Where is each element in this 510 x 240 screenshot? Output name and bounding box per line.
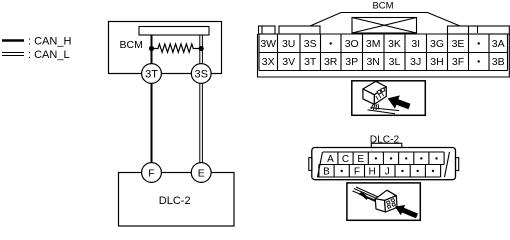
svg-text:3S: 3S xyxy=(194,69,207,81)
svg-text:3R: 3R xyxy=(324,56,338,68)
svg-text:C: C xyxy=(342,154,349,165)
DLC-2 connector left latch xyxy=(309,158,312,171)
icon frame xyxy=(347,183,420,220)
svg-text:3I: 3I xyxy=(411,38,420,50)
wire CAN_L inside BCM (3S to bar), double line xyxy=(200,35,203,64)
DLC-2 connector view icon xyxy=(347,183,420,220)
wire CAN_H inside BCM (3T to bar) xyxy=(151,35,153,64)
svg-text:3P: 3P xyxy=(345,56,358,68)
svg-text:3T: 3T xyxy=(304,56,317,68)
svg-text:3L: 3L xyxy=(389,56,401,68)
connector housing isometric xyxy=(363,81,386,104)
wire CAN_H from 3T to F xyxy=(151,83,153,163)
DLC-2 pin blank row2 col6 xyxy=(401,170,403,172)
wire bundle stub xyxy=(361,193,368,199)
DLC-2 connector right latch xyxy=(456,158,459,171)
DLC-2 pin blank row1 col4 xyxy=(375,157,377,159)
legend CAN_H line sample xyxy=(2,39,24,42)
legend CAN_L double line sample xyxy=(2,53,24,56)
DLC-2 pin blank row1 col5 xyxy=(390,157,392,159)
svg-text:3X: 3X xyxy=(262,56,275,68)
svg-text:3H: 3H xyxy=(430,56,443,68)
svg-text:3E: 3E xyxy=(452,38,465,50)
DLC-2 pin blank row1 col8 xyxy=(435,157,437,159)
svg-text:BCM: BCM xyxy=(120,39,143,51)
connector pin slots xyxy=(377,88,385,94)
svg-text:F: F xyxy=(354,166,360,177)
svg-text:3O: 3O xyxy=(345,38,359,50)
svg-text:3J: 3J xyxy=(410,56,421,68)
DLC-2 pin blank row2 col8 xyxy=(432,170,434,172)
BCM connector view icon xyxy=(352,81,426,116)
BCM connector top tab left xyxy=(259,26,276,34)
junction dot at CAN_H / resistor xyxy=(149,46,154,51)
wire CAN_L from 3S to E, double line xyxy=(200,83,203,163)
DLC-2 connector top tab xyxy=(371,143,402,147)
svg-text:E: E xyxy=(357,154,364,165)
DLC-2 pin blank row2 col2 xyxy=(341,170,343,172)
svg-text:3G: 3G xyxy=(430,38,444,50)
svg-text:A: A xyxy=(327,154,334,165)
pin 3T on BCM xyxy=(142,64,162,84)
BCM pin grid lines xyxy=(259,34,508,71)
svg-text:3S: 3S xyxy=(304,38,317,50)
svg-text:3T: 3T xyxy=(145,69,158,81)
svg-text:3N: 3N xyxy=(366,56,379,68)
svg-text:3A: 3A xyxy=(492,38,505,50)
BCM connector shell (left edge and bottom strip) xyxy=(258,34,510,77)
pointer arrow xyxy=(395,205,418,218)
BCM internal connector bar xyxy=(139,27,209,36)
connector face hatch xyxy=(376,92,384,99)
svg-text:B: B xyxy=(323,166,330,177)
pin F on DLC-2 xyxy=(142,163,162,183)
connector housing isometric xyxy=(375,190,397,212)
svg-text:: CAN_H: : CAN_H xyxy=(28,36,71,48)
svg-text:3M: 3M xyxy=(366,38,381,50)
svg-text:: CAN_L: : CAN_L xyxy=(28,49,70,61)
svg-text:3K: 3K xyxy=(388,38,401,50)
svg-text:E: E xyxy=(198,168,205,180)
svg-text:3B: 3B xyxy=(492,56,505,68)
svg-text:DLC-2: DLC-2 xyxy=(159,195,191,207)
svg-text:BCM: BCM xyxy=(372,0,393,11)
BCM connector top boss over 3U-3S xyxy=(279,26,320,34)
BCM module box xyxy=(109,22,222,74)
DLC-2 pin blank row1 col7 xyxy=(420,157,422,159)
icon frame xyxy=(352,81,426,116)
svg-text:J: J xyxy=(385,166,390,177)
svg-text:3U: 3U xyxy=(282,38,295,50)
DLC-2 box xyxy=(119,173,235,227)
BCM pin blank row1 col4 xyxy=(330,42,332,44)
svg-text:H: H xyxy=(368,166,375,177)
pin E on DLC-2 xyxy=(191,163,211,183)
svg-text:3V: 3V xyxy=(282,56,295,68)
BCM pin blank row2 col11 xyxy=(478,60,480,62)
DLC-2 pin blank row1 col6 xyxy=(405,157,407,159)
BCM connector top profile line xyxy=(310,13,460,27)
pointer arrow xyxy=(388,95,411,109)
svg-text:DLC-2: DLC-2 xyxy=(370,135,400,146)
connector wires xyxy=(353,187,379,202)
BCM pin blank row1 col11 xyxy=(478,42,480,44)
svg-text:3F: 3F xyxy=(452,56,464,68)
connector wires xyxy=(368,104,400,114)
BCM connector keyway box with cross xyxy=(352,18,417,34)
DLC-2 pin blank row2 col7 xyxy=(417,170,419,172)
svg-text:F: F xyxy=(148,168,154,180)
junction dot at CAN_L / resistor xyxy=(199,46,204,51)
DLC-2 pin grid lines xyxy=(317,152,449,177)
BCM connector top boss right xyxy=(448,26,510,34)
pin 3S on BCM xyxy=(191,64,211,84)
DLC-2 connector shell xyxy=(312,148,456,180)
terminating resistor between CAN_H and CAN_L xyxy=(152,44,202,52)
svg-text:3W: 3W xyxy=(260,38,276,50)
connector pin slots xyxy=(387,199,396,209)
